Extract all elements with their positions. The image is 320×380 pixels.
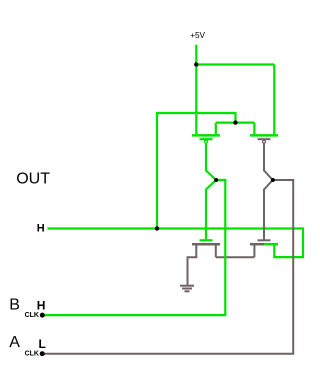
svg-text:A: A [9, 334, 20, 351]
svg-text:+5V: +5V [190, 31, 205, 40]
svg-text:B: B [9, 296, 20, 313]
svg-text:CLK: CLK [25, 351, 39, 358]
svg-text:OUT: OUT [16, 170, 50, 187]
svg-text:H: H [37, 223, 45, 235]
svg-text:CLK: CLK [25, 312, 39, 319]
svg-text:L: L [39, 337, 46, 351]
svg-text:H: H [37, 298, 46, 312]
